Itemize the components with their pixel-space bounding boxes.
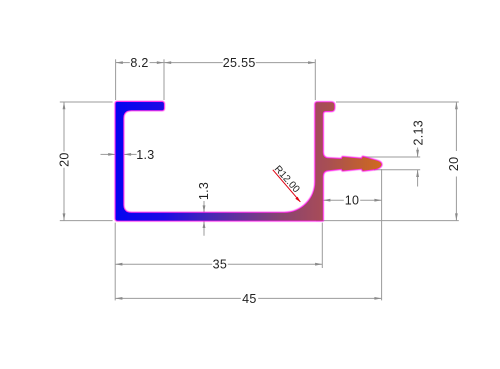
bottom 1.3 arrows: [203, 205, 206, 212]
left 20: dim line: [63, 102, 65, 152]
svg-text:R12.00: R12.00: [272, 164, 302, 196]
2.13 dim lines: [417, 148, 419, 158]
2.13 arrows: [416, 150, 419, 157]
dim line 25.55: [164, 62, 223, 64]
10 dim line: [323, 199, 344, 201]
ext line top left (x=115.6): [115, 59, 117, 100]
right vertical ext line x=322.3 for 35: [321, 223, 323, 268]
ext line right bar left (x=315.3): [314, 59, 316, 100]
svg-text:1.3: 1.3: [136, 148, 154, 162]
2.13 lower ext line: [374, 169, 420, 171]
svg-text:1.3: 1.3: [197, 182, 211, 200]
leader R12.00: [273, 170, 301, 202]
left 1.3 arrows lines: [101, 153, 115, 155]
svg-text:2.13: 2.13: [412, 120, 426, 146]
left 20: ext lines: [60, 101, 113, 103]
left 1.3 arrows: [108, 153, 115, 156]
svg-text:10: 10: [345, 194, 360, 208]
10 arrows: [323, 199, 330, 202]
45 arrows: [115, 297, 122, 300]
svg-text:45: 45: [242, 292, 257, 306]
right bottom ext line (y=220.6): [316, 220, 459, 222]
profile cross-section: [116, 102, 382, 221]
svg-text:8.2: 8.2: [130, 56, 148, 70]
arrowheads: [63, 61, 458, 300]
bottom 1.3 lines: [203, 201, 205, 212]
svg-text:25.55: 25.55: [223, 56, 256, 70]
right 20 dim line: [455, 102, 457, 151]
dim line 8.2: [116, 62, 130, 64]
2.13 upper ext line: [363, 156, 421, 158]
svg-text:20: 20: [57, 152, 71, 167]
45 dim line: [115, 297, 241, 299]
35 arrows: [115, 263, 122, 266]
right vertical ext line x=381.6 (tip): [381, 169, 383, 300]
left vertical ext line x=115.2 (bottom): [114, 223, 116, 301]
8.2 arrows: [116, 61, 123, 64]
svg-text:35: 35: [213, 258, 228, 272]
right 20 arrows: [455, 102, 458, 109]
dimension graphics: [60, 59, 459, 300]
25.55 arrows: [164, 61, 171, 64]
right top ext line (y=102): [336, 101, 459, 103]
ext line top tab end (x=164): [163, 59, 165, 100]
left 20 arrows: [63, 102, 66, 109]
svg-text:20: 20: [447, 157, 461, 172]
35 dim line: [115, 263, 212, 265]
